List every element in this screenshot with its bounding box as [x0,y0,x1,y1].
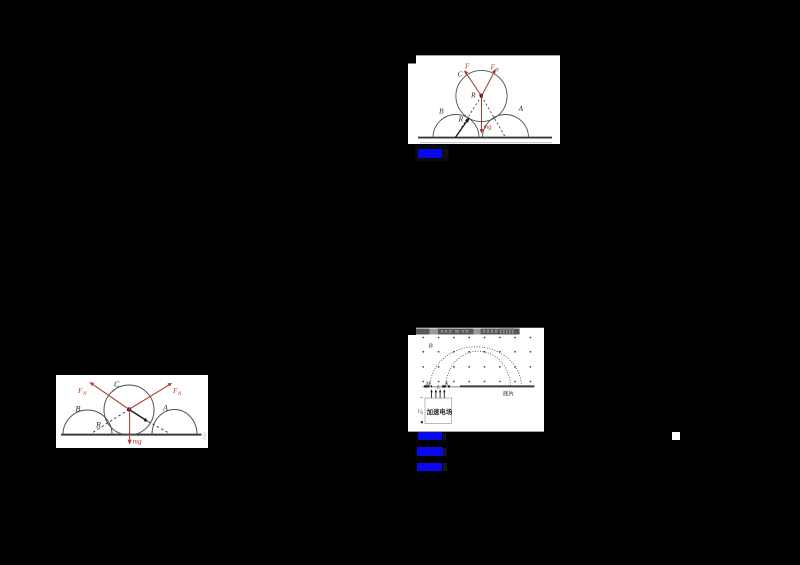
svg-text:mg: mg [133,437,142,446]
svg-text:N: N [82,392,87,397]
svg-text:R: R [470,91,476,100]
svg-text:R: R [95,421,101,430]
svg-text:A: A [518,104,524,113]
svg-text:B: B [76,405,81,414]
svg-text:底片: 底片 [503,390,515,398]
svg-text:N: N [444,381,449,387]
svg-text:F: F [464,63,470,71]
svg-text:0: 0 [421,411,423,415]
svg-text:C: C [114,380,120,389]
svg-text:A: A [162,404,168,413]
svg-text:mg: mg [484,124,493,131]
svg-text:L: L [436,385,440,391]
svg-text:M: M [425,381,431,387]
svg-text:R: R [458,115,464,124]
svg-text:加速电场: 加速电场 [426,407,453,416]
svg-text:B: B [439,107,444,116]
svg-text:N: N [177,392,182,397]
svg-text:N: N [495,69,500,74]
svg-text:B: B [429,342,433,349]
